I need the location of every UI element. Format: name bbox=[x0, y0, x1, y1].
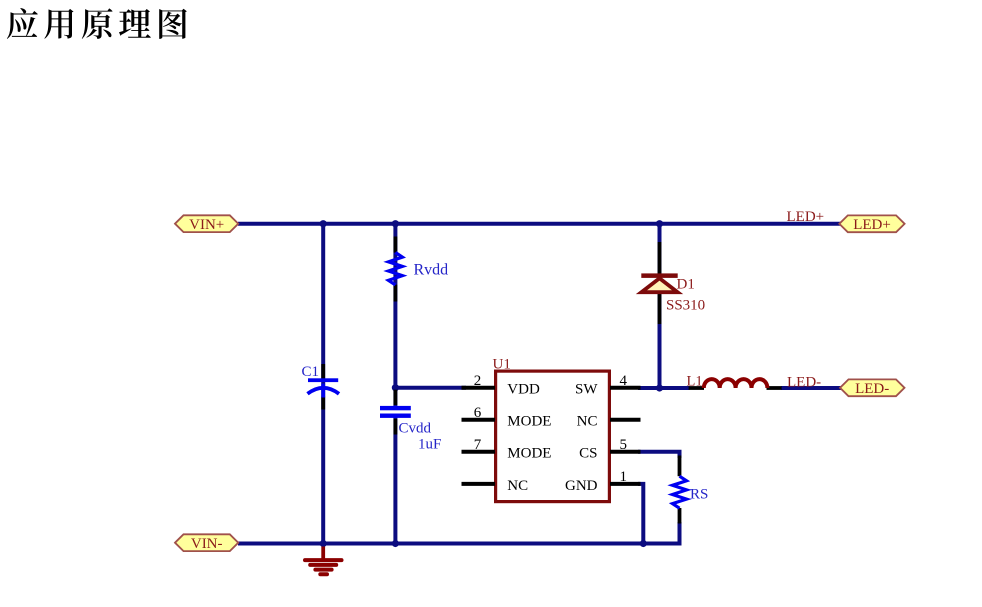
svg-text:2: 2 bbox=[474, 373, 482, 389]
junction node: Cvdd/VDD bbox=[392, 384, 399, 391]
svg-text:Cvdd: Cvdd bbox=[399, 421, 432, 437]
svg-text:6: 6 bbox=[474, 405, 482, 421]
junction node: SW/D1 bbox=[656, 384, 663, 391]
capacitor C1 (polarized) bbox=[308, 378, 338, 382]
U1 left pin 2 (VDD) bbox=[462, 373, 540, 398]
wire: D1 branch vertical bbox=[658, 224, 662, 388]
svg-text:5: 5 bbox=[620, 437, 628, 453]
svg-text:SS310: SS310 bbox=[666, 298, 705, 314]
wire: L1 to LED- port bbox=[781, 386, 841, 390]
svg-text:LED-: LED- bbox=[787, 375, 821, 391]
port LED- bbox=[840, 379, 905, 397]
wire: VIN- bottom rail bbox=[238, 522, 680, 544]
pin leads diode D1 bbox=[658, 242, 662, 274]
svg-text:LED+: LED+ bbox=[853, 217, 891, 233]
U1 right pin nc (NC) bbox=[577, 414, 641, 430]
port LED+ bbox=[839, 215, 904, 233]
svg-text:7: 7 bbox=[474, 437, 482, 453]
pin leads resistor RS bbox=[678, 456, 682, 477]
svg-text:1uF: 1uF bbox=[418, 437, 441, 453]
svg-text:D1: D1 bbox=[677, 277, 695, 293]
svg-text:GND: GND bbox=[565, 478, 598, 494]
svg-text:VIN+: VIN+ bbox=[189, 217, 224, 233]
svg-text:Rvdd: Rvdd bbox=[414, 262, 449, 279]
svg-text:NC: NC bbox=[577, 414, 598, 430]
ground symbol bbox=[305, 547, 342, 575]
wire: CS to RS bbox=[638, 452, 680, 458]
pin leads inductor L1 bbox=[689, 386, 704, 390]
junction node: Cvdd bottom bbox=[392, 540, 399, 547]
svg-text:C1: C1 bbox=[302, 364, 320, 380]
inductor L1 bbox=[704, 379, 768, 388]
svg-text:VIN-: VIN- bbox=[191, 536, 223, 552]
svg-text:VDD: VDD bbox=[507, 382, 540, 398]
svg-text:SW: SW bbox=[575, 382, 598, 398]
junction node: D1 top bbox=[656, 220, 663, 227]
resistor RS zigzag bbox=[673, 476, 687, 508]
svg-text:LED-: LED- bbox=[855, 381, 889, 397]
svg-text:U1: U1 bbox=[493, 357, 511, 373]
svg-text:4: 4 bbox=[620, 373, 628, 389]
svg-text:NC: NC bbox=[507, 478, 528, 494]
title 应用原理图 bbox=[7, 8, 187, 39]
IC U1 body bbox=[496, 371, 610, 502]
svg-text:L1: L1 bbox=[687, 374, 703, 390]
resistor Rvdd zigzag bbox=[388, 253, 402, 285]
U1 right pin 1 (GND) bbox=[565, 469, 641, 494]
svg-text:RS: RS bbox=[690, 487, 708, 503]
pin leads resistor Rvdd bbox=[393, 237, 397, 253]
svg-text:LED+: LED+ bbox=[787, 209, 825, 225]
junction node: C1 top bbox=[320, 220, 327, 227]
svg-text:MODE: MODE bbox=[507, 446, 551, 462]
capacitor Cvdd bbox=[391, 410, 399, 415]
wire: C1 branch vertical bbox=[321, 224, 325, 544]
svg-text:CS: CS bbox=[579, 446, 597, 462]
wire: VDD pin2 wire bbox=[395, 386, 466, 390]
U1 left pin 6 (MODE) bbox=[462, 405, 552, 430]
pin leads capacitor C1 bbox=[321, 364, 325, 379]
port VIN- bbox=[175, 534, 238, 552]
wire: Rvdd/Cvdd branch vertical bbox=[393, 224, 397, 544]
U1 right pin 4 (SW) bbox=[575, 373, 641, 398]
U1 left pin nc (NC) bbox=[462, 478, 529, 494]
svg-text:1: 1 bbox=[620, 469, 628, 485]
junction node: GND wire bottom bbox=[640, 540, 647, 547]
pin leads capacitor Cvdd bbox=[393, 390, 397, 405]
wire: SW to L1 bbox=[638, 386, 690, 390]
junction node: Rvdd top bbox=[392, 220, 399, 227]
U1 right pin 5 (CS) bbox=[579, 437, 640, 462]
diode D1 (Schottky SS310) bbox=[641, 273, 677, 278]
wire: VIN+ top rail bbox=[238, 222, 841, 226]
wire: GND pin1 down bbox=[638, 484, 643, 544]
svg-text:MODE: MODE bbox=[507, 414, 551, 430]
U1 left pin 7 (MODE) bbox=[462, 437, 552, 462]
port VIN+ bbox=[175, 215, 238, 233]
junction node: C1 bottom/ground bbox=[320, 540, 327, 547]
